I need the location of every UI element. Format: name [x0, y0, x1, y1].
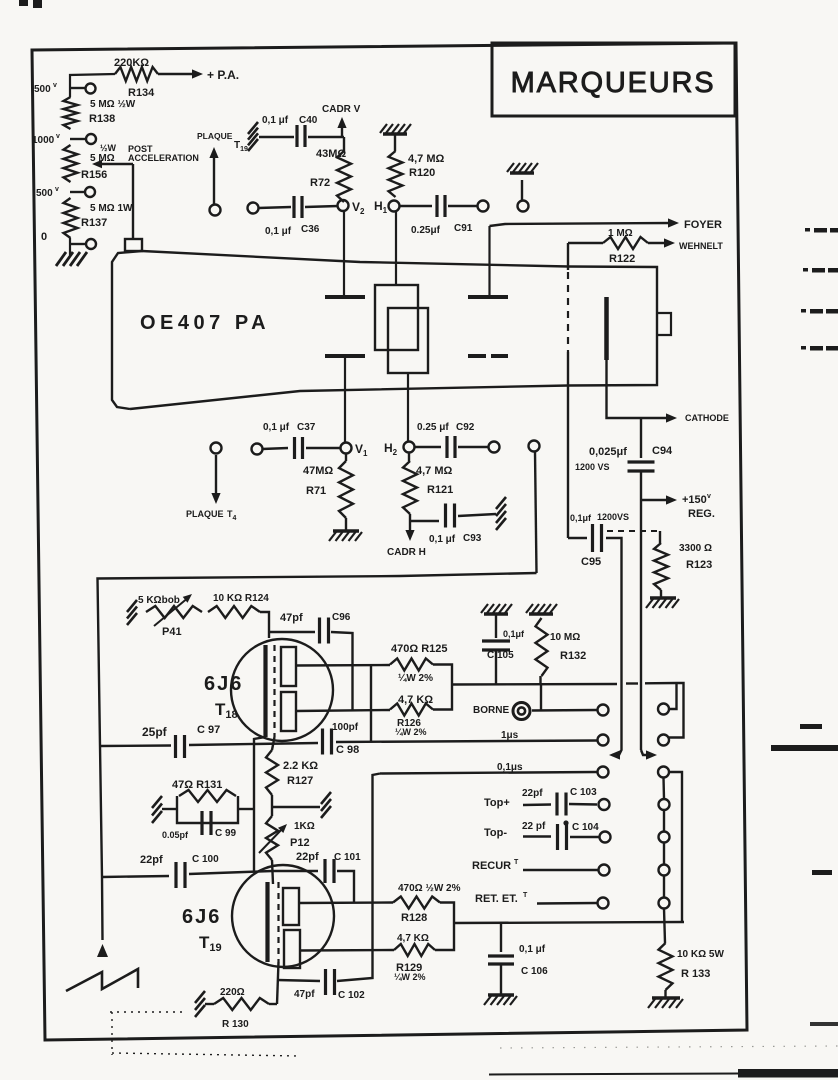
svg-text:22 pf: 22 pf	[522, 821, 546, 832]
svg-text:5 MΩ ½W: 5 MΩ ½W	[90, 99, 136, 110]
wire contact C to return rail	[669, 772, 682, 922]
wire bus branch to contact A	[669, 683, 677, 709]
parallel box R131 C99	[177, 796, 238, 823]
svg-text:R137: R137	[81, 217, 107, 229]
ground divider	[56, 238, 87, 266]
wire 0,1us riser	[373, 774, 381, 952]
ground below R71	[329, 518, 362, 541]
wire R124 to T18 grid	[260, 612, 269, 638]
dashed link C95 to R123	[607, 530, 658, 532]
wire borne bus	[452, 683, 677, 685]
svg-text:0.05pf: 0.05pf	[162, 830, 189, 840]
label OE407 PA	[140, 312, 270, 334]
svg-text:22pf: 22pf	[140, 854, 163, 866]
svg-text:1200 VS: 1200 VS	[575, 462, 610, 472]
output bracket R125 R126	[433, 665, 452, 710]
wire RECUR row	[472, 859, 598, 872]
resistor R124	[208, 593, 269, 618]
wire left rail lower	[97, 746, 108, 957]
terminal BORNE	[473, 703, 530, 720]
svg-text:2.2 KΩ: 2.2 KΩ	[283, 760, 318, 772]
contact right B	[658, 735, 669, 746]
terminal 1000V	[32, 133, 96, 146]
resistor R72	[310, 137, 351, 202]
H deflection plate top	[468, 295, 508, 299]
label CATHODE	[685, 413, 729, 423]
terminal PLAQUE T19	[197, 131, 248, 216]
wire plate to V1	[344, 358, 346, 443]
arrow CADR H	[387, 521, 426, 558]
wire borne stem	[540, 685, 542, 711]
svg-text:5 KΩbob: 5 KΩbob	[138, 595, 180, 606]
wire plate2 to R129	[300, 949, 394, 952]
wire C94 line down to arrow	[641, 500, 657, 760]
svg-text:T18: T18	[215, 700, 238, 721]
svg-text:22pf: 22pf	[522, 788, 543, 799]
svg-text:5 MΩ 1W: 5 MΩ 1W	[90, 203, 133, 214]
chassis right of R127	[321, 792, 331, 818]
svg-text:OE407 PA: OE407 PA	[140, 312, 270, 334]
terminal left of C36	[248, 203, 259, 214]
label 6J6 T18	[204, 673, 243, 721]
V deflection plate top	[325, 295, 365, 299]
svg-text:0,1 μf: 0,1 μf	[429, 534, 456, 545]
capacitor C95	[568, 512, 629, 568]
chassis at P41	[127, 600, 137, 625]
wire to C40	[259, 136, 294, 138]
T19 plate 1	[283, 888, 299, 925]
svg-text:T: T	[523, 892, 528, 899]
svg-text:PLAQUE: PLAQUE	[197, 131, 233, 141]
svg-text:4,7 MΩ: 4,7 MΩ	[416, 465, 453, 477]
label POST ACCELERATION	[128, 144, 199, 163]
vertical link v2	[370, 665, 372, 742]
svg-text:500: 500	[36, 188, 53, 199]
svg-text:0,1μf: 0,1μf	[570, 513, 592, 523]
wire 0,1us row	[380, 772, 597, 774]
wire C100 to grid node	[189, 871, 272, 874]
wiper arrow into R156	[92, 160, 133, 168]
capacitor C40	[262, 115, 318, 147]
wire cathode out	[607, 360, 678, 423]
chassis left of R130	[195, 991, 214, 1017]
svg-text:C 102: C 102	[338, 990, 365, 1001]
resistor R138	[64, 97, 136, 129]
capacitor C93	[410, 504, 496, 546]
potentiometer P12	[259, 816, 315, 860]
svg-text:47pf: 47pf	[280, 612, 303, 624]
wire FOYER	[490, 218, 680, 227]
svg-text:v: v	[53, 82, 57, 89]
wire marker top rail	[98, 573, 537, 746]
svg-text:BORNE: BORNE	[473, 705, 509, 716]
wire R127 junction to chassis	[272, 795, 320, 816]
contact right E	[659, 832, 670, 843]
svg-text:R156: R156	[81, 169, 107, 181]
svg-text:C 106: C 106	[521, 966, 548, 977]
svg-text:0,1μf: 0,1μf	[503, 629, 525, 639]
H deflection plate bottom	[468, 354, 508, 358]
wire C101 to plate node	[337, 871, 354, 903]
heater wire solid upper	[567, 243, 569, 270]
capacitor C106	[488, 923, 548, 977]
svg-text:1 MΩ: 1 MΩ	[608, 228, 633, 239]
svg-text:1KΩ: 1KΩ	[294, 821, 315, 832]
capacitor C94	[575, 445, 673, 472]
terminal 500V mid	[36, 186, 95, 199]
node H1	[374, 199, 400, 215]
T18 grid bottom corner	[254, 737, 266, 871]
svg-text:C96: C96	[332, 612, 351, 623]
svg-text:R71: R71	[306, 485, 326, 497]
CRT base tab	[125, 239, 142, 251]
T18 plate 1	[281, 647, 296, 686]
wire plate1 to R128	[299, 901, 393, 904]
svg-text:C 100: C 100	[192, 854, 219, 865]
resistor R71	[303, 454, 353, 518]
svg-text:P12: P12	[290, 837, 310, 849]
T19 cathode dashed	[277, 882, 279, 962]
capacitor C98	[323, 722, 360, 756]
chassis left of R131	[152, 796, 162, 823]
V deflection plate bottom	[325, 354, 365, 358]
scan fragment thick bar right	[771, 745, 838, 751]
resistor R123	[654, 531, 712, 590]
svg-text:C 104: C 104	[572, 822, 599, 833]
capacitor C97	[100, 724, 220, 758]
capacitor C101	[272, 851, 361, 883]
wire contact G to R133	[664, 909, 665, 944]
terminal with ground	[507, 163, 538, 212]
svg-text:v: v	[56, 133, 60, 140]
wire contact E to F	[663, 843, 665, 865]
wire to WEHNELT	[648, 238, 675, 247]
svg-text:T: T	[514, 859, 519, 866]
svg-text:P41: P41	[162, 626, 182, 638]
scan fragment bottom right small	[810, 1022, 838, 1026]
svg-text:470Ω ½W 2%: 470Ω ½W 2%	[398, 883, 461, 894]
resistor R132	[536, 618, 587, 676]
wire box to rail	[238, 808, 254, 810]
capacitor C105	[482, 614, 525, 661]
label FOYER	[684, 219, 722, 231]
wire plate1 to R125	[296, 664, 390, 667]
node V2	[338, 200, 366, 216]
svg-text:1000: 1000	[32, 135, 55, 146]
outer border frame	[32, 43, 747, 1040]
contact left 1us	[598, 735, 609, 746]
svg-text:ACCELERATION: ACCELERATION	[128, 153, 199, 163]
scan artifact top-left marks	[19, 0, 42, 8]
svg-text:H1: H1	[374, 199, 388, 215]
potentiometer P41	[138, 594, 202, 638]
terminal right of C91	[478, 201, 489, 212]
svg-text:RECUR: RECUR	[472, 860, 511, 872]
svg-text:C92: C92	[456, 422, 475, 433]
resistor R137	[64, 198, 134, 238]
contact left Top-	[600, 832, 611, 843]
svg-text:Top+: Top+	[484, 797, 510, 809]
svg-text:v: v	[707, 493, 711, 500]
contact left BORNE	[598, 705, 609, 716]
svg-text:R120: R120	[409, 167, 435, 179]
svg-text:5 MΩ: 5 MΩ	[90, 153, 115, 164]
svg-text:470Ω R125: 470Ω R125	[391, 643, 448, 655]
capacitor C100	[102, 854, 219, 888]
wire foyer corner to plate	[488, 226, 490, 295]
node H2	[384, 441, 415, 457]
T18 cathode dashed	[273, 645, 275, 737]
wire divider top corner	[70, 74, 115, 97]
resistor R125	[390, 643, 448, 684]
terminal left of C37	[252, 444, 263, 455]
svg-text:R72: R72	[310, 177, 330, 189]
terminal 500V top	[34, 82, 96, 95]
svg-text:PLAQUE: PLAQUE	[186, 509, 224, 519]
svg-text:C95: C95	[581, 556, 601, 568]
contact right C	[658, 767, 669, 778]
CRT envelope OE407 PA	[112, 251, 657, 409]
T18 grid bar	[263, 645, 267, 737]
svg-text:4,7 MΩ: 4,7 MΩ	[408, 153, 445, 165]
svg-text:C91: C91	[454, 223, 473, 234]
svg-text:47Ω R131: 47Ω R131	[172, 779, 222, 791]
wire plate2 to R126	[296, 710, 390, 711]
wire T19 cathode down	[277, 962, 279, 1004]
contact left RET	[598, 898, 609, 909]
svg-text:CATHODE: CATHODE	[685, 413, 729, 423]
svg-text:220KΩ: 220KΩ	[114, 57, 149, 69]
svg-text:C 97: C 97	[197, 724, 220, 736]
svg-text:¼W 2%: ¼W 2%	[398, 673, 433, 684]
svg-text:Top-: Top-	[484, 827, 507, 839]
heater wire solid lower	[567, 352, 569, 538]
resistor R134	[114, 57, 158, 99]
svg-text:CADR H: CADR H	[387, 547, 426, 558]
svg-text:4,7 KΩ: 4,7 KΩ	[397, 933, 429, 944]
tube T18 envelope	[231, 639, 333, 741]
contact right A	[658, 704, 669, 715]
arrow CADR V	[322, 104, 361, 137]
svg-text:R 130: R 130	[222, 1019, 249, 1030]
capacitor C104	[484, 820, 599, 850]
svg-text:0.25μf: 0.25μf	[411, 225, 441, 236]
anode rectangle 2	[388, 308, 428, 373]
ground above C105	[481, 604, 512, 614]
svg-text:10 KΩ 5W: 10 KΩ 5W	[677, 949, 724, 960]
svg-text:¼W 2%: ¼W 2%	[394, 972, 426, 982]
svg-text:C36: C36	[301, 224, 320, 235]
svg-text:R122: R122	[609, 253, 635, 265]
node +150 REG	[641, 493, 715, 520]
wire contact C to D	[662, 778, 665, 800]
svg-text:25pf: 25pf	[142, 725, 168, 739]
svg-text:T19: T19	[234, 140, 248, 153]
wire R121 junction	[409, 514, 411, 521]
terminal 0V	[41, 231, 96, 249]
wire C95 down to arrow	[606, 538, 622, 760]
sawtooth waveform	[66, 969, 138, 991]
svg-text:R132: R132	[560, 650, 586, 662]
T18 plate 2	[281, 692, 296, 731]
resistor R130	[214, 987, 277, 1030]
capacitor C91	[400, 195, 477, 236]
svg-text:R134: R134	[128, 87, 155, 99]
svg-text:H2: H2	[384, 441, 398, 457]
CRT key tab	[657, 313, 671, 335]
contact left RECUR	[599, 865, 610, 876]
resistor R120	[389, 134, 445, 197]
ground above R132	[526, 604, 557, 614]
label WEHNELT	[679, 241, 723, 251]
contact right F	[659, 865, 670, 876]
scan fragment right 1	[805, 228, 838, 233]
svg-text:10 MΩ: 10 MΩ	[550, 632, 580, 643]
capacitor C99	[162, 811, 237, 840]
resistor R156	[64, 143, 117, 182]
capacitor C96	[269, 612, 351, 644]
wire contact D to E	[663, 810, 665, 832]
scan fragment right 4	[801, 346, 838, 351]
contact right G	[659, 898, 670, 909]
svg-text:R127: R127	[287, 775, 313, 787]
svg-text:R121: R121	[427, 484, 453, 496]
label 0,1us	[497, 762, 523, 773]
svg-text:220Ω: 220Ω	[220, 987, 245, 998]
resistor R122	[603, 228, 648, 265]
cathode bar	[604, 297, 609, 360]
svg-text:100pf: 100pf	[332, 722, 359, 733]
svg-text:R128: R128	[401, 912, 427, 924]
capacitor C36	[258, 196, 338, 237]
label 6J6 T19	[182, 906, 222, 954]
svg-text:v: v	[55, 186, 59, 193]
svg-text:22pf: 22pf	[296, 851, 319, 863]
capacitor C103	[484, 787, 597, 816]
wire H1 to anode	[395, 212, 397, 285]
ground above R120	[380, 124, 411, 134]
svg-text:T19: T19	[199, 933, 222, 954]
wire C105 down	[495, 650, 497, 685]
wire P12 to T19 grid	[272, 860, 273, 884]
svg-text:C93: C93	[463, 533, 482, 544]
svg-text:+ P.A.: + P.A.	[207, 68, 239, 82]
svg-text:0,1 μf: 0,1 μf	[265, 226, 292, 237]
label 1us	[501, 730, 519, 741]
scan fragment right 6	[812, 870, 832, 875]
resistor R131	[172, 779, 236, 802]
wire R132 down	[539, 676, 541, 685]
resistor R126	[390, 694, 433, 737]
scan fragment right 3	[801, 309, 838, 314]
svg-text:C 101: C 101	[334, 852, 361, 863]
wire C94 down	[640, 471, 642, 500]
svg-text:10 KΩ R124: 10 KΩ R124	[213, 593, 269, 604]
capacitor C92	[415, 422, 488, 458]
wire RET row	[475, 892, 597, 905]
wire V2 to plate	[343, 211, 345, 295]
terminal PLAQUE T4	[186, 443, 237, 523]
svg-text:4,7 KΩ: 4,7 KΩ	[398, 694, 433, 706]
wire contact F to G	[663, 876, 665, 898]
scan fragment bottom right bar	[489, 1046, 838, 1078]
terminal marker feed	[529, 441, 540, 452]
wire to +P.A.	[158, 69, 203, 78]
capacitor C37	[262, 422, 340, 459]
svg-text:47MΩ: 47MΩ	[303, 465, 333, 477]
T19 grid bar	[265, 882, 269, 962]
wire C96 to plate node	[331, 632, 353, 711]
chassis right of C93	[496, 497, 506, 530]
svg-text:6J6: 6J6	[182, 906, 221, 928]
svg-text:C 99: C 99	[215, 828, 237, 839]
wire borne row	[532, 709, 597, 712]
svg-text:MARQUEURS: MARQUEURS	[511, 67, 716, 99]
wire marker feed down	[535, 452, 537, 573]
ground below R123	[646, 590, 679, 608]
wire post-accel down	[132, 164, 134, 240]
svg-text:+150: +150	[682, 494, 707, 506]
svg-text:WEHNELT: WEHNELT	[679, 241, 723, 251]
wire wehnelt corner	[568, 242, 603, 244]
ground below C106	[484, 964, 517, 1005]
T19 plate 2	[284, 930, 300, 968]
svg-text:¼W 2%: ¼W 2%	[395, 727, 427, 737]
resistor R129	[394, 933, 435, 982]
svg-text:R123: R123	[686, 559, 712, 571]
output bracket R128 R129	[435, 903, 454, 951]
contact left 0,1us	[598, 767, 609, 778]
svg-text:1200VS: 1200VS	[597, 512, 629, 522]
svg-text:0,1 μf: 0,1 μf	[519, 944, 546, 955]
svg-text:RET. ET.: RET. ET.	[475, 893, 518, 905]
resistor R128	[393, 883, 461, 924]
svg-text:500: 500	[34, 84, 51, 95]
svg-text:0,1 μf: 0,1 μf	[262, 115, 289, 126]
resistor R127	[266, 737, 318, 795]
svg-text:FOYER: FOYER	[684, 219, 722, 231]
scan fragment right 2	[803, 268, 838, 273]
svg-text:3300 Ω: 3300 Ω	[679, 543, 712, 554]
svg-text:V2: V2	[352, 200, 365, 216]
wire C102 to riser	[337, 951, 373, 981]
svg-text:R 133: R 133	[681, 968, 710, 980]
wire C97 to C98	[189, 743, 318, 745]
svg-text:1μs: 1μs	[501, 730, 519, 741]
svg-text:C37: C37	[297, 422, 316, 433]
svg-text:C 105: C 105	[487, 650, 514, 661]
svg-text:C94: C94	[652, 445, 673, 457]
node V1	[341, 442, 369, 458]
contact left Top+	[599, 799, 610, 810]
scan fragment right 5	[800, 724, 822, 729]
wire C40 to CADR V node	[308, 136, 344, 138]
wire anode to H2	[407, 373, 409, 441]
svg-text:0: 0	[41, 231, 47, 243]
contact right D	[659, 799, 670, 810]
wire cathode to C94	[640, 418, 642, 458]
svg-text:0.25 μf: 0.25 μf	[417, 422, 449, 433]
svg-text:0,1μs: 0,1μs	[497, 762, 523, 773]
dotted page fold marks	[110, 1012, 300, 1056]
terminal right of C92	[489, 442, 500, 453]
svg-text:6J6: 6J6	[204, 673, 243, 695]
wire bus corner to contact B	[669, 683, 684, 738]
capacitor C102	[277, 969, 365, 1001]
svg-text:0,025μf: 0,025μf	[589, 446, 627, 458]
svg-text:V1: V1	[355, 442, 368, 458]
svg-text:C 98: C 98	[336, 744, 359, 756]
